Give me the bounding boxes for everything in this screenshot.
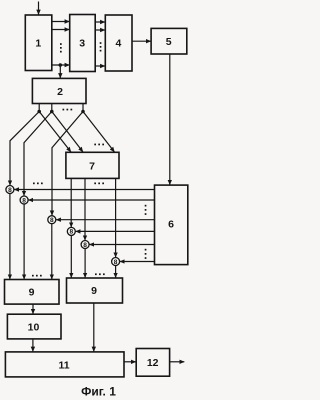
wire 4 to 5	[132, 40, 151, 42]
wire stub B under block 2	[51, 104, 53, 112]
dots between 1 and 3	[60, 43, 62, 52]
wire output arrow from block 12	[170, 361, 185, 363]
wire 6 to adder c6	[120, 261, 155, 263]
block 9 right	[67, 278, 123, 303]
dots between 3 and 4	[100, 42, 102, 51]
block 10	[7, 314, 61, 339]
wire 9 right down to block 11	[93, 303, 95, 352]
node stub B	[50, 110, 54, 114]
svg-text:8: 8	[8, 187, 12, 194]
wire block 7 output 3 down to adder c6	[115, 178, 117, 257]
wire c4 down to block 9 right	[70, 235, 72, 277]
wire 6 to adder c4	[76, 230, 155, 232]
block 4	[105, 15, 132, 71]
wire diagonal A-left then down to adder 8 (c1)	[10, 112, 39, 186]
wire diagonal B-right into block 7	[52, 112, 83, 153]
wire 6 to adder c1	[14, 189, 154, 191]
svg-text:8: 8	[83, 242, 87, 249]
wire 3 to 4 (bottom)	[95, 65, 105, 67]
dots above block 9 right	[95, 273, 105, 275]
wire stub C under block 2	[82, 104, 84, 112]
adder circle c6	[112, 258, 120, 266]
dots below block 7	[94, 183, 104, 185]
svg-text:2: 2	[57, 86, 63, 98]
wire 6 to adder c2	[28, 199, 154, 201]
block 6	[155, 185, 188, 265]
node stub A	[37, 110, 41, 114]
block 3	[70, 15, 96, 72]
adder circle c5	[81, 241, 89, 249]
wire c3 down to block 9 left	[51, 224, 53, 280]
wire c5 down to block 9 right	[84, 249, 86, 278]
wire 1 to 3 (second)	[52, 29, 70, 31]
wire input arrow into block 1 top	[38, 2, 40, 15]
svg-text:10: 10	[28, 322, 40, 334]
wire diagonal C-left then down to adder 8 (c3)	[52, 112, 83, 216]
node junction on bottom wire	[59, 63, 63, 67]
node stub C	[81, 110, 85, 114]
svg-text:1: 1	[35, 38, 41, 50]
wire 3 to 4 (second)	[95, 29, 105, 31]
wire 11 to 12	[124, 361, 136, 363]
svg-text:8: 8	[22, 197, 26, 204]
block 11	[5, 352, 124, 377]
wire diagonal B-left then down to adder 8 (c2)	[24, 112, 52, 196]
wire 10 down to block 11	[32, 339, 34, 352]
svg-text:5: 5	[166, 36, 172, 48]
wire junction down into block 2	[59, 65, 61, 78]
svg-text:3: 3	[79, 38, 85, 50]
wire c1 down to block 9 left	[9, 194, 11, 280]
wire 6 to adder c3	[56, 219, 155, 221]
svg-text:9: 9	[91, 285, 97, 297]
svg-text:9: 9	[29, 287, 35, 299]
block 2	[32, 78, 86, 103]
block 9 left	[5, 280, 60, 305]
dots left of block 6 (upper)	[145, 205, 147, 215]
wire stub A under block 2	[38, 104, 40, 112]
svg-text:7: 7	[89, 161, 95, 173]
wire c6 down to block 9 right	[115, 266, 117, 278]
wire 1 to 3 (bottom)	[52, 64, 70, 66]
dots under block 2	[63, 109, 73, 111]
wire 3 to 4 (top)	[95, 21, 105, 23]
wire diagonal A-right into block 7	[39, 112, 71, 153]
adder circle c3	[48, 216, 56, 224]
wire block 7 output 2 down to adder c5	[84, 178, 86, 240]
wire 6 to adder c5	[89, 244, 154, 246]
block 5	[151, 28, 187, 54]
svg-text:8: 8	[114, 259, 118, 266]
adder circle c4	[67, 227, 75, 235]
svg-text:12: 12	[147, 357, 159, 369]
wire diagonal C-right into block 7	[83, 112, 115, 153]
dots left of block 6 (lower)	[145, 249, 147, 259]
block 1	[25, 15, 52, 71]
wire 5 down to block 6	[169, 54, 171, 185]
block 7	[66, 152, 119, 178]
wire 1 to 3 (top)	[52, 21, 70, 23]
dots above block 9 left	[32, 275, 42, 277]
adder circle c1	[6, 186, 14, 194]
dots above block 7	[94, 144, 104, 146]
svg-text:6: 6	[168, 219, 174, 231]
dots left row between c2 and c3 feeds	[33, 183, 43, 185]
svg-text:11: 11	[58, 359, 69, 371]
svg-text:8: 8	[50, 217, 54, 224]
block 12	[136, 349, 169, 377]
svg-text:Фиг. 1: Фиг. 1	[81, 385, 116, 399]
svg-text:8: 8	[69, 229, 73, 236]
wire 9 left down to block 10	[32, 304, 34, 314]
wire c2 down to block 9 left	[23, 204, 25, 279]
wire block 7 output 1 down to adder c4	[70, 178, 72, 227]
svg-text:4: 4	[115, 38, 121, 50]
adder circle c2	[20, 196, 28, 204]
